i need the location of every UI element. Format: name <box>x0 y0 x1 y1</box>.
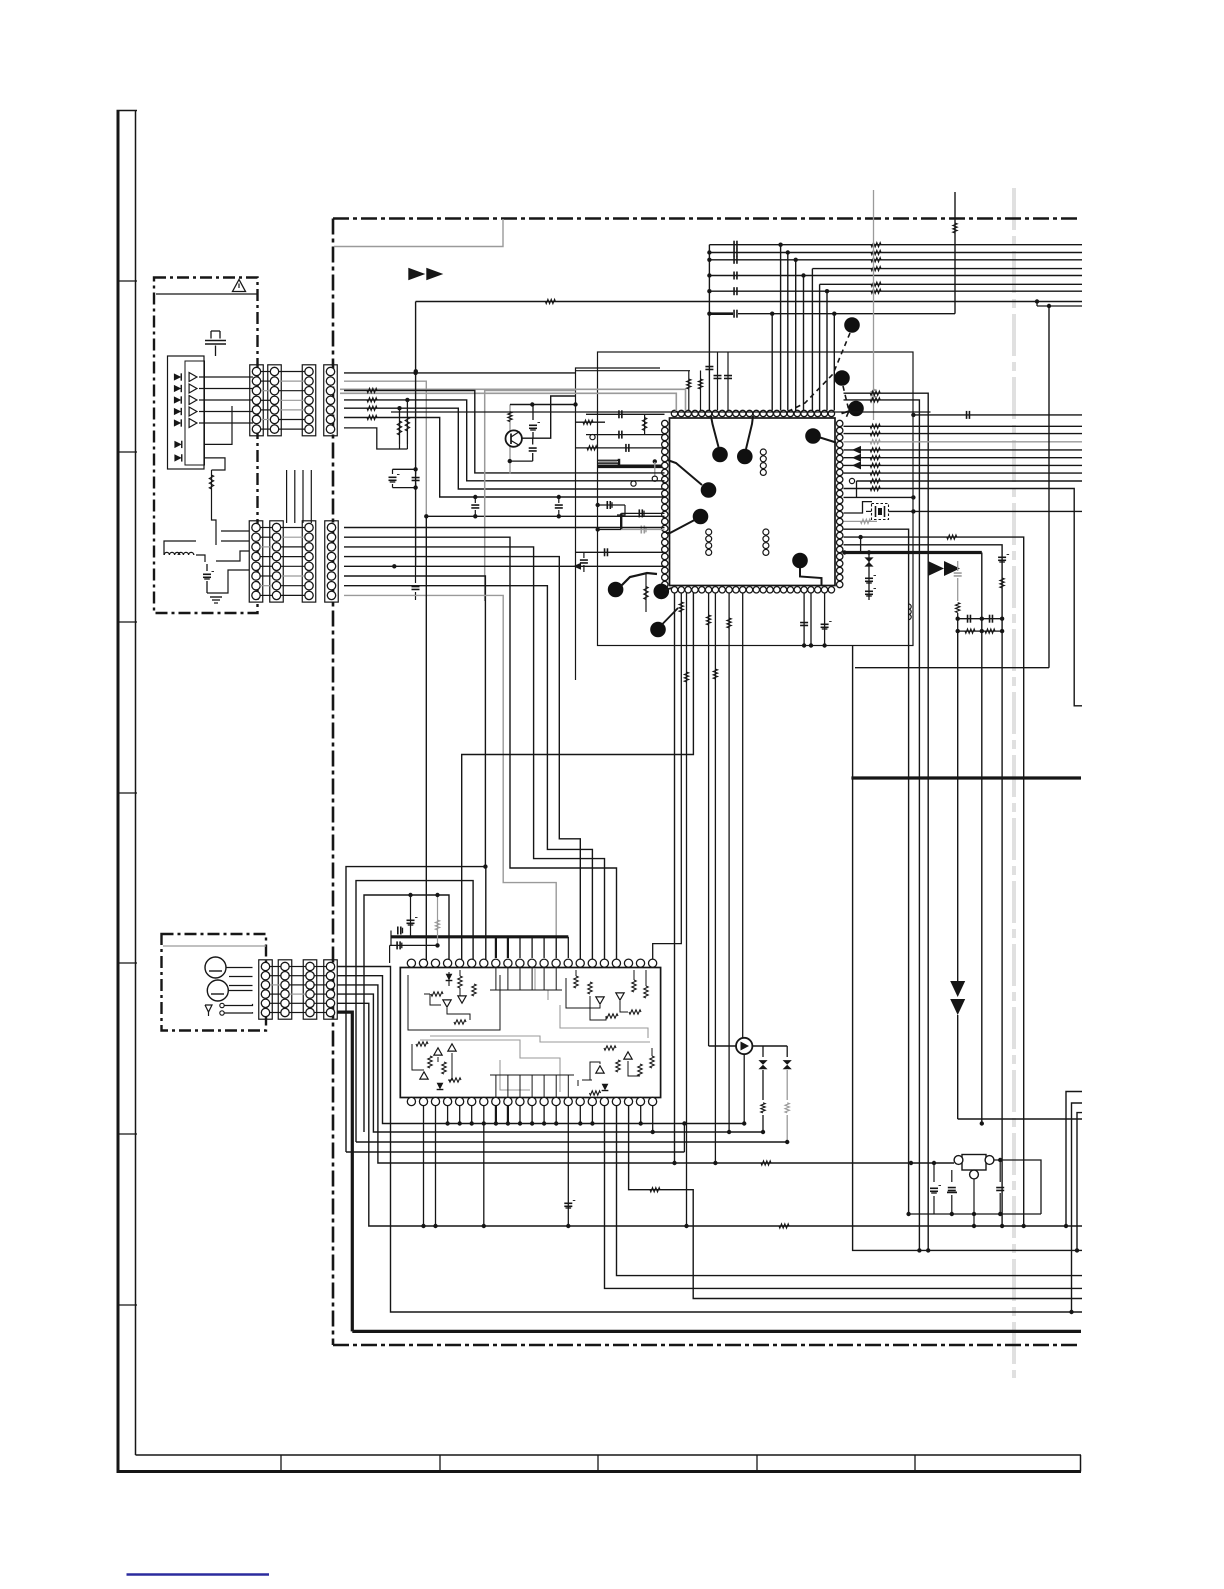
board boundary top dash-dot line <box>333 217 1080 220</box>
bus wire net T7 <box>709 290 1082 292</box>
terminal circle L1 <box>590 435 595 440</box>
right wire RR2 <box>844 433 1083 435</box>
supply sense wire <box>844 537 1024 1226</box>
U2 pin long drop 1 <box>423 1106 425 1226</box>
buffer triangle row 5 <box>189 419 197 428</box>
resistor RR6 <box>870 463 880 467</box>
U2 internal cluster BR <box>604 1046 616 1050</box>
bus wire H3 <box>356 1141 786 1143</box>
IC U1 left pins <box>662 420 668 426</box>
wire L7 <box>576 551 665 553</box>
gray reference vertical <box>873 190 875 420</box>
wire B5 <box>344 565 665 567</box>
signal arrow <box>852 446 861 454</box>
warning triangle <box>233 280 246 292</box>
signal wire M2 <box>344 547 605 963</box>
page border section tick <box>117 1133 138 1135</box>
junction gray res <box>435 893 439 897</box>
U1 interior pad circles group 1 <box>760 449 766 455</box>
resistor on vC <box>650 1188 660 1192</box>
U1 interior pad circles group 3 <box>763 529 769 535</box>
tuner wiring to connector <box>199 376 253 378</box>
signal arrow <box>852 461 861 469</box>
wire A7 <box>344 428 407 449</box>
jack small terminals <box>220 1003 224 1007</box>
reg cap C3 <box>999 1160 1001 1182</box>
junction RR10 <box>911 495 915 499</box>
wire A2 line to IC <box>426 515 664 517</box>
page bottom ruler tick <box>914 1455 916 1472</box>
sub-board second top line <box>576 370 691 372</box>
gray video pair in <box>340 389 686 411</box>
antenna coupling capacitor C-ant <box>210 331 212 339</box>
junction CL4 <box>596 503 600 507</box>
resistor on bus T1 <box>871 243 881 247</box>
bus H4 end stub <box>683 1124 685 1153</box>
test point TP3 <box>701 482 717 498</box>
AV input box dash-dot outline <box>162 934 267 1031</box>
page bottom ruler tick <box>756 1455 758 1472</box>
signal arrow <box>852 454 861 462</box>
U2 bus ecap <box>410 895 412 937</box>
resistor R-tune vertical <box>211 470 213 500</box>
resistor RR1 <box>870 424 880 428</box>
junction T10 a <box>770 312 774 316</box>
osc cap network top <box>958 618 1002 620</box>
wire U1-P10 to opto <box>742 593 744 1038</box>
bus left drop wire <box>708 314 710 411</box>
Q1 bias ecap <box>532 405 534 421</box>
fast-forward arrows right <box>928 561 944 576</box>
wire to V909 <box>844 529 909 1214</box>
bus wire H4 <box>346 1151 684 1153</box>
right vertical V1077 <box>1077 1113 1082 1251</box>
inter-row wire 4 <box>310 470 312 523</box>
U2 internal cluster TL <box>408 972 500 1030</box>
capacitor on bus T5 <box>733 272 735 280</box>
right wire RR6 <box>844 464 1083 466</box>
U1 interior pad circles group 2 <box>706 529 712 535</box>
regulator IC3 body <box>962 1155 986 1171</box>
reg bottom bus <box>909 1213 1041 1215</box>
U2 pin drop with cap <box>567 1106 569 1226</box>
CN-C wire 5 <box>337 1003 1082 1226</box>
junction V1071 bottom <box>1069 1310 1073 1314</box>
bus wire net T9 <box>1037 305 1082 307</box>
ecap Z2 <box>865 590 873 592</box>
diode array box <box>168 356 205 469</box>
capacitor CL1 <box>618 410 620 418</box>
connector CN-B1 <box>249 521 263 602</box>
coupling cap CA1 <box>393 468 416 470</box>
jack J2 <box>207 980 228 1001</box>
wire B8 gray chain <box>344 595 556 963</box>
decoupling wire drop <box>389 945 391 963</box>
junction Q1 emitter <box>508 459 512 463</box>
resistor RL1 <box>583 420 593 424</box>
connector CN-A1 <box>250 365 264 436</box>
supply bus drop <box>981 553 983 1124</box>
wire A5 <box>344 408 665 489</box>
resistor on ground return <box>779 1224 789 1228</box>
test point TP11 <box>654 584 670 600</box>
reg cap C1 <box>933 1163 935 1182</box>
junction RD <box>397 406 401 410</box>
junction T10 b <box>832 312 836 316</box>
test point TP5 <box>805 428 821 444</box>
resistor RA3 <box>367 388 377 392</box>
zener pair ZD3 <box>786 1046 788 1057</box>
bus tie junction <box>707 312 711 316</box>
junction R2 bottom <box>917 1248 921 1252</box>
long vertical wire V415 <box>415 302 417 567</box>
crystal gray resistor wire <box>844 520 878 522</box>
resistor RP5 <box>708 593 710 1046</box>
IC sub-board outline box <box>598 352 914 646</box>
junction A2 <box>424 514 428 518</box>
IC U1 right pins <box>837 420 843 426</box>
right wire RR4 <box>844 449 1083 451</box>
CL4 loop <box>617 505 625 515</box>
bus wire net T6 <box>820 283 1082 285</box>
wire L2 <box>576 421 606 423</box>
IC sub-board inner outline <box>576 368 661 680</box>
diode D6 <box>174 441 181 448</box>
bus tie junction <box>707 258 711 262</box>
U2 decoupling wire <box>390 944 438 946</box>
test point TP9 <box>848 401 864 417</box>
resistor on bus T7 <box>871 289 881 293</box>
U2 pin drop <box>495 1106 497 1124</box>
U2 pin chain vD <box>652 1106 654 1132</box>
band-switch diode D1 <box>174 373 181 380</box>
arrow series cap <box>957 561 959 571</box>
connector CN-B4 <box>325 521 339 602</box>
resistor on feed 544 <box>1000 578 1004 588</box>
resistor RL4 vertical <box>645 574 647 612</box>
inter-row wire 3 <box>302 470 304 523</box>
wire L4 <box>576 447 665 449</box>
terminal link wire <box>856 481 858 497</box>
U2 pin long drop 2 <box>435 1106 437 1226</box>
right vertical V1071 <box>1072 1103 1083 1312</box>
page border section tick <box>117 1304 138 1306</box>
decoupling capacitor CV2 <box>727 352 729 410</box>
resistor RP6 <box>714 593 716 1163</box>
resistor RP3 <box>686 593 688 1226</box>
ecap Z1 <box>865 577 873 579</box>
resistor on bus T3 <box>871 258 881 262</box>
page border section tick <box>117 280 138 282</box>
thick av bus <box>597 464 662 468</box>
capacitor CL2 <box>618 431 620 439</box>
connector CN-C1 <box>259 960 273 1019</box>
resistor under ZD3 <box>785 1103 789 1113</box>
connector CN-A3 <box>302 365 316 436</box>
ground junction bus <box>404 1123 744 1125</box>
wire A6 <box>344 418 665 498</box>
CN-C wire 4 <box>337 994 763 1132</box>
connector CN-B2 <box>270 521 284 602</box>
junction V415 <box>414 369 418 373</box>
signal wire M3 <box>344 586 592 963</box>
series resistor <box>956 603 960 613</box>
junction on T8 <box>1035 299 1039 303</box>
long vertical wire V427 branch <box>425 516 427 963</box>
junction CL6 <box>596 527 600 531</box>
regulator pin c <box>970 1170 979 1179</box>
transistor area gray box <box>485 391 576 602</box>
bus drop wire <box>803 276 805 411</box>
connector CN-B3 <box>302 521 316 602</box>
test point TP10 <box>608 582 624 598</box>
tuner local wiring down <box>212 500 217 545</box>
right vertical V982 <box>980 1121 984 1125</box>
tuner box dash-dot outline <box>154 278 258 614</box>
bus drop wire <box>811 269 813 411</box>
thick power wire from CN-C <box>337 1012 352 1331</box>
bypass cap CL5 <box>621 512 664 514</box>
bridge wire BR1 <box>346 867 486 1152</box>
bus drop wire <box>780 245 782 411</box>
U2 comb top middle <box>495 968 497 991</box>
CN-C link wires <box>270 966 281 968</box>
bus drop wire <box>826 291 828 410</box>
pull-up resistor column <box>954 192 956 314</box>
electrolytic capacitor C-t1 <box>206 564 208 571</box>
shielded pair gray core <box>599 461 618 463</box>
junction on bus T2 <box>786 250 790 254</box>
bus wire net T2 <box>709 252 1082 254</box>
divider resistor RD2 <box>406 400 408 444</box>
junction sense <box>858 535 862 539</box>
U2 pin chain vC <box>629 1106 1082 1299</box>
divider resistor RD1 <box>399 408 401 444</box>
bus drop wire <box>833 314 835 411</box>
bus wire net T3 <box>709 259 1082 261</box>
ecap on feed 544 <box>998 556 1006 558</box>
resistor RR2 <box>870 431 880 435</box>
sense branch <box>860 537 862 552</box>
page border section tick <box>117 451 138 453</box>
page bottom ruler right end tick <box>1080 1455 1082 1472</box>
shielded pair bar <box>618 459 621 465</box>
junction zener column <box>867 550 871 554</box>
inter-row wire 1 <box>286 470 288 523</box>
U2 internal cluster BL <box>416 1042 428 1046</box>
power arrow wire <box>957 631 959 981</box>
zener ZD1 <box>864 557 873 562</box>
page bottom ruler tick <box>280 1455 282 1472</box>
decoupling resistor RV1 <box>688 371 690 411</box>
jack ground triangle <box>205 1005 212 1012</box>
thick bottom bus <box>352 1330 1081 1333</box>
resistor RA6 <box>367 415 377 419</box>
junction feed bottom <box>1000 1224 1004 1228</box>
tuner IF wiring <box>164 541 196 555</box>
T8 corner stub <box>1036 302 1038 307</box>
U2 pin drop <box>507 1106 509 1124</box>
bus wire net T5 <box>709 275 1082 277</box>
crystal X1 input wires <box>844 502 873 513</box>
junction Q1 top <box>530 402 534 406</box>
capacitor on bus T3 <box>733 256 735 264</box>
opto down wire <box>743 1054 745 1123</box>
power arrows down <box>950 981 965 997</box>
bus wire net T4 <box>812 268 1082 270</box>
U2 pin drop <box>447 1106 449 1124</box>
ecap on decoupling wire <box>396 941 398 949</box>
right wire R2 corner <box>844 400 920 1251</box>
crystal X1 <box>872 504 889 520</box>
bus tie junction <box>707 273 711 277</box>
capacitor CL8 vertical <box>583 552 585 558</box>
resistor RR7 <box>870 471 880 475</box>
tuner lower wiring <box>204 406 232 444</box>
bypass cap CL4 <box>598 504 625 506</box>
junction sense bottom <box>1022 1224 1026 1228</box>
junction on supply wire <box>909 1161 913 1165</box>
capacitor on bus T1 <box>733 241 735 249</box>
U2 pin drop <box>519 1106 521 1124</box>
resistor RR9 <box>870 486 880 490</box>
Q1 collector wire <box>522 396 576 438</box>
buffer triangle row 3 <box>189 396 197 405</box>
wire L1 <box>586 413 665 415</box>
fast-forward arrows left <box>408 268 425 281</box>
right corner bus <box>1037 305 1049 307</box>
signal wire M4 <box>344 557 580 963</box>
Q1 top rail <box>510 404 576 406</box>
wire A3 <box>344 391 665 473</box>
capacitor CL3 <box>625 444 627 452</box>
test point TP7 <box>844 317 860 333</box>
right wire RR10 <box>844 496 914 498</box>
band-switch diode D3 <box>174 396 181 403</box>
wire B1 <box>344 527 665 529</box>
signal wire M1 <box>344 537 617 963</box>
connector CN-C4 <box>324 960 338 1019</box>
junction A1 <box>413 371 417 375</box>
IC U2 top pins <box>407 959 415 967</box>
Q1 bias resistor <box>508 412 512 422</box>
right wire RR7 <box>844 472 1083 474</box>
buffer triangle row 2 <box>189 384 197 393</box>
U2 pin chain vB <box>617 1106 1083 1276</box>
capacitor on drop <box>705 366 713 368</box>
bus wire net T8 long <box>416 301 1082 303</box>
junction on bus T3 <box>794 258 798 262</box>
resistor RP2 <box>653 593 682 963</box>
board boundary left dash-dot line <box>332 219 335 1346</box>
power wire corner <box>958 1118 1082 1120</box>
U2 pin drop <box>543 1106 545 1124</box>
U2 pin drop <box>483 1106 485 1124</box>
Q1 emitter wire <box>510 460 533 462</box>
regulator pin b <box>985 1156 994 1165</box>
junction h6 <box>1064 1224 1068 1228</box>
U2 pin drop <box>531 1106 533 1124</box>
U2 pin drop <box>555 1106 557 1124</box>
resistor on sense wire <box>947 535 957 539</box>
CN-C wire 3 <box>337 985 954 1163</box>
U2 pin drop <box>459 1106 461 1124</box>
wire P20 <box>810 593 812 646</box>
capacitor on bus T2 <box>733 249 735 257</box>
band-switch diode D2 <box>174 385 181 392</box>
right vertical V1049 <box>1048 306 1050 668</box>
test point TP1 <box>712 447 728 463</box>
resistor on bus T6 <box>871 282 881 286</box>
terminal circle right <box>849 478 854 483</box>
junction bus ecap <box>408 893 412 897</box>
bus wire net T10 (AGC) <box>709 312 733 315</box>
reg gnd wire <box>973 1179 975 1214</box>
resistor RR8 <box>870 479 880 483</box>
feed wire 544 <box>844 545 1003 1226</box>
resistor R2 <box>870 398 880 402</box>
junction on bus T5 <box>801 273 805 277</box>
capacitor on bus T7 <box>733 287 735 295</box>
wire L3 <box>586 434 665 436</box>
page bottom ruler tick <box>597 1455 599 1472</box>
junction crystal out <box>911 509 915 513</box>
U2 thick pin drops <box>495 1106 497 1124</box>
ecap CP2 <box>824 593 826 646</box>
crystal output wire <box>889 510 1083 512</box>
coil L2 <box>178 552 194 555</box>
resistor RA4 <box>367 398 377 402</box>
cap CB5 <box>415 566 417 583</box>
thick mid bus <box>851 776 1081 779</box>
junction CA <box>413 467 417 471</box>
blue footer rule <box>127 1573 270 1576</box>
terminal circle L3 <box>631 481 636 486</box>
test point TP8 <box>834 370 850 386</box>
right wire RR1 <box>844 425 1083 427</box>
page border thick left line <box>117 110 120 1473</box>
coupling cap CA2 <box>415 469 417 474</box>
resistor RR4 <box>870 448 880 452</box>
right wire RR5 <box>844 457 1083 459</box>
opto wires <box>709 1045 736 1047</box>
U2 supply thick bus <box>392 935 569 938</box>
inter-row wire 2 <box>294 470 296 523</box>
test point TP6 <box>792 553 808 569</box>
jack J1 <box>205 957 226 978</box>
IC U1 body <box>670 418 836 586</box>
bypass cap CL6 gray <box>598 529 622 531</box>
wire A1 <box>344 372 576 374</box>
zener pair ZD2 <box>762 1046 764 1057</box>
cap CP1 <box>803 593 805 646</box>
IC U2 body <box>400 968 660 1098</box>
tuner feed lines to connector row B <box>221 530 249 532</box>
regulator output wire <box>994 1160 1041 1214</box>
bridge wire BR3 <box>364 895 449 1132</box>
page border inner left line <box>135 110 137 1455</box>
resistor on supply wire <box>761 1161 771 1165</box>
connector CN-A4 <box>324 365 338 436</box>
U2 pin long drop 3 <box>483 1124 485 1227</box>
video loop wire <box>462 593 694 963</box>
bus tie vertical <box>708 245 710 314</box>
right vertical V852 <box>853 646 1082 1251</box>
wire A4 <box>344 400 665 481</box>
U2 pin drop <box>579 1106 581 1124</box>
transistor Q1 <box>506 430 522 446</box>
wire B6 chain <box>344 576 485 867</box>
